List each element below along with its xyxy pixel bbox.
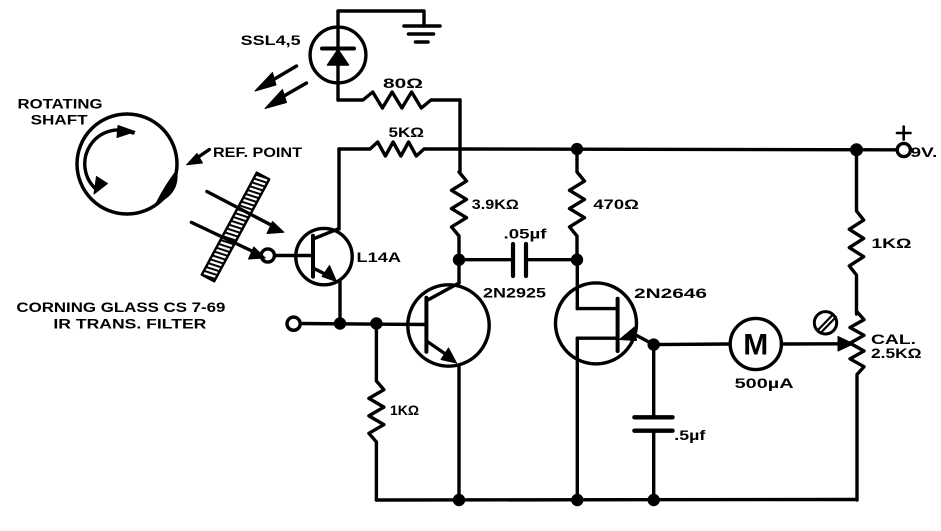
node B: 470 / cap / UJT B2 — [571, 254, 582, 265]
rotating shaft circle — [77, 114, 177, 214]
ground — [404, 26, 440, 42]
light arrows through filter — [191, 192, 284, 260]
svg-text:80Ω: 80Ω — [383, 76, 423, 91]
svg-text:.5µf: .5µf — [674, 428, 706, 443]
wire: L14A collector riser — [337, 149, 340, 229]
wire: input line with terminal — [300, 324, 426, 325]
svg-text:500µA: 500µA — [735, 376, 794, 391]
REF. POINT arrow — [187, 150, 210, 165]
IR filter (hatched bar) — [202, 173, 269, 282]
UJT 2N2646 — [556, 260, 654, 500]
svg-text:5KΩ: 5KΩ — [389, 125, 425, 140]
wire: top rail — [460, 147, 897, 151]
wire: bottom rail — [376, 498, 856, 502]
terminal: L14A base — [261, 249, 274, 262]
svg-text:.05µf: .05µf — [504, 227, 548, 242]
svg-text:470Ω: 470Ω — [593, 197, 639, 212]
svg-text:9V.: 9V. — [910, 145, 937, 160]
capacitor .5uf — [634, 345, 672, 500]
LED SSL4,5 — [310, 27, 366, 100]
phototransistor L14A — [274, 228, 352, 323]
svg-text:2.5KΩ: 2.5KΩ — [871, 346, 922, 361]
resistor 80 ohm — [338, 92, 460, 108]
resistor 1K (right) — [849, 150, 863, 314]
svg-text:SHAFT: SHAFT — [31, 112, 89, 127]
svg-text:CORNING GLASS CS 7-69: CORNING GLASS CS 7-69 — [16, 300, 225, 315]
svg-text:IR TRANS. FILTER: IR TRANS. FILTER — [53, 316, 206, 331]
node: UJT B1 / rail — [572, 494, 583, 505]
terminal: input — [287, 317, 300, 330]
node: rail-470 junction — [571, 143, 582, 154]
svg-text:L14A: L14A — [357, 250, 402, 265]
svg-text:REF. POINT: REF. POINT — [213, 145, 303, 160]
resistor 470 — [570, 149, 585, 260]
meter M 500uA — [654, 318, 854, 369]
node: L14A emitter junction — [334, 318, 345, 329]
screwdriver adjust symbol — [814, 312, 836, 334]
node: UJT emitter / meter / cap — [648, 339, 659, 350]
svg-text:SSL4,5: SSL4,5 — [241, 33, 302, 48]
svg-text:1KΩ: 1KΩ — [871, 236, 911, 251]
wire: LED anode to top rail to ground — [338, 11, 424, 27]
light emission arrows from LED — [255, 66, 307, 109]
node: Q2 emitter / rail — [453, 494, 464, 505]
capacitor .05uf — [459, 244, 577, 276]
svg-text:2N2925: 2N2925 — [483, 285, 547, 300]
plus sign — [897, 127, 911, 140]
node: rail-1K junction — [851, 144, 863, 156]
svg-text:M: M — [743, 329, 768, 362]
svg-text:3.9KΩ: 3.9KΩ — [472, 197, 519, 212]
resistor 3.9K — [452, 149, 467, 260]
terminal: +9V — [897, 143, 910, 156]
resistor 5K — [339, 142, 460, 156]
svg-text:CAL.: CAL. — [871, 332, 916, 347]
resistor 1K (left) — [369, 324, 384, 501]
node: 1K junction — [371, 318, 382, 329]
transistor Q2 2N2925 — [408, 260, 489, 500]
svg-text:1KΩ: 1KΩ — [390, 403, 419, 418]
wire: 80 ohm to top rail — [458, 100, 461, 149]
svg-text:2N2646: 2N2646 — [634, 286, 708, 301]
potentiometer CAL 2.5K — [850, 312, 864, 500]
node: cap / rail — [648, 494, 659, 505]
node A: 3.9K / cap / Q2 collector — [453, 254, 464, 265]
svg-text:ROTATING: ROTATING — [18, 96, 103, 111]
